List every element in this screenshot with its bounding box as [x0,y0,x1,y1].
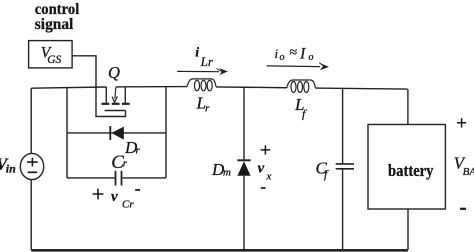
svg-text:x: x [266,171,272,183]
svg-text:in: in [6,161,16,175]
svg-text:battery: battery [388,161,434,180]
svg-text:v: v [258,161,265,177]
svg-text:f: f [324,167,329,181]
svg-text:i: i [195,46,199,61]
svg-text:Cr: Cr [122,199,134,211]
svg-text:GS: GS [47,54,61,66]
svg-text:v: v [111,189,118,205]
svg-text:f: f [302,107,307,121]
svg-text:Lr: Lr [200,54,214,69]
svg-text:r: r [123,158,128,170]
svg-text:r: r [136,145,141,157]
svg-text:r: r [205,103,210,115]
svg-text:BA: BA [463,166,474,178]
svg-text:o: o [280,52,285,63]
svg-text:i: i [275,46,279,61]
svg-text:≈: ≈ [290,46,298,61]
svg-text:I: I [299,45,306,62]
svg-text:m: m [223,167,231,179]
svg-text:Q: Q [108,63,120,82]
svg-text:o: o [309,52,314,63]
svg-text:signal: signal [35,16,74,33]
